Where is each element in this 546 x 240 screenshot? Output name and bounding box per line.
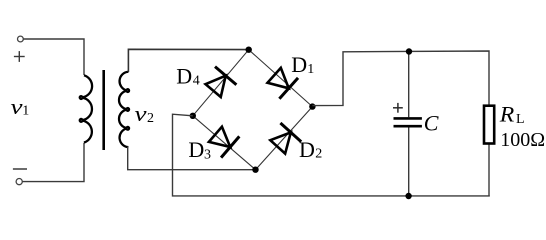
node top of bridge [246,47,252,53]
plus sign input polarity [14,51,25,62]
node capacitor top [406,48,412,54]
svg-text:D: D [291,52,307,77]
bridge arm top-left [193,50,249,116]
plus sign capacitor polarity [393,103,403,113]
wire resistor bottom to rail [488,144,490,196]
wire left node to bottom rail [173,114,490,196]
wire top terminal to primary coil top [24,39,85,75]
wire capacitor branch lower [408,128,410,197]
wire capacitor branch upper [408,51,410,117]
bridge arm bottom-left [193,116,256,170]
terminal top-left input [18,36,24,42]
svg-text:100Ω: 100Ω [500,129,545,151]
node right of bridge [309,103,315,109]
svg-text:1: 1 [307,62,314,77]
svg-text:3: 3 [204,147,211,162]
svg-text:D: D [188,137,204,162]
svg-text:D: D [299,137,315,162]
svg-text:v: v [135,101,147,126]
diode D1 [265,65,298,99]
wire secondary bottom to bridge bottom node [128,147,256,170]
svg-text:1: 1 [22,104,29,119]
minus sign input polarity [13,168,27,170]
svg-text:R: R [499,102,515,127]
inductor secondary winding [119,72,129,147]
transformer core bar [102,70,105,150]
svg-text:2: 2 [147,111,154,126]
svg-text:4: 4 [193,73,200,88]
capacitor C plates [394,118,422,126]
wire primary coil bottom to bottom terminal [23,143,85,182]
svg-text:C: C [424,110,439,135]
svg-text:L: L [516,112,525,127]
svg-text:D: D [176,64,192,89]
diode D3 [206,124,239,158]
node capacitor bottom [405,193,411,199]
resistor RL body [484,106,494,144]
node bottom of bridge [252,167,258,173]
svg-text:2: 2 [315,147,322,162]
diode D4 [202,67,236,100]
node left of bridge [190,113,196,119]
wire secondary top to bridge top node [128,49,248,72]
svg-text:v: v [11,94,23,119]
bridge arm top-right [249,50,313,107]
diode D2 [267,123,301,156]
inductor primary winding [80,75,92,142]
bridge arm bottom-right [256,107,313,170]
terminal bottom-left input [16,179,22,185]
wire right node riser to top rail [312,51,489,106]
